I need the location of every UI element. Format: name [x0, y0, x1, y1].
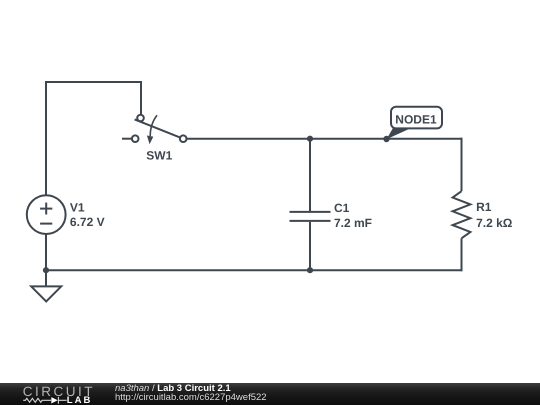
wire V1 to ground: [45, 234, 47, 286]
label SW1: [146, 149, 172, 163]
junction node at V1 bottom rail: [43, 267, 49, 273]
junction node at capacitor top: [307, 136, 313, 142]
value 6.72 V: [70, 215, 105, 229]
value 7.2 kOhm: [476, 216, 513, 230]
label V1: [70, 200, 85, 214]
ground: [31, 286, 61, 301]
svg-text:C1: C1: [334, 201, 350, 215]
node NODE1 flag balloon: [391, 107, 442, 129]
label NODE1: [395, 112, 437, 126]
svg-text:LAB: LAB: [67, 395, 93, 405]
wire bottom horizontal: [45, 269, 463, 271]
node NODE1 dot: [383, 136, 389, 142]
CircuitLab logo: [0, 383, 110, 405]
wire left vertical (V1 top to corner): [45, 82, 47, 196]
wire right rail lower: [461, 238, 463, 271]
svg-text:7.2 kΩ: 7.2 kΩ: [476, 216, 513, 230]
switch SW1: [122, 115, 187, 145]
label R1: [476, 200, 492, 214]
url text: [115, 393, 267, 402]
svg-text:R1: R1: [476, 200, 492, 214]
wire capacitor top lead: [309, 139, 311, 211]
svg-text:SW1: SW1: [146, 149, 172, 163]
resistor R1: [453, 191, 471, 238]
wire switch to right rail: [187, 138, 463, 140]
value 7.2 mF: [334, 216, 372, 230]
wire right rail upper: [461, 138, 463, 192]
svg-text:7.2 mF: 7.2 mF: [334, 216, 372, 230]
svg-text:V1: V1: [70, 200, 85, 214]
capacitor C1: [290, 212, 331, 221]
wire switch common drop: [140, 81, 142, 115]
node NODE1 flag pointer: [387, 128, 413, 140]
voltage source V1: [27, 195, 66, 234]
svg-text:6.72 V: 6.72 V: [70, 215, 105, 229]
wire top horizontal: [45, 81, 141, 83]
svg-text:NODE1: NODE1: [395, 112, 437, 126]
wire capacitor bottom lead: [309, 222, 311, 270]
footer bar: [0, 383, 540, 405]
attribution text: [115, 384, 231, 393]
label C1: [334, 201, 350, 215]
junction node at capacitor bottom: [307, 267, 313, 273]
